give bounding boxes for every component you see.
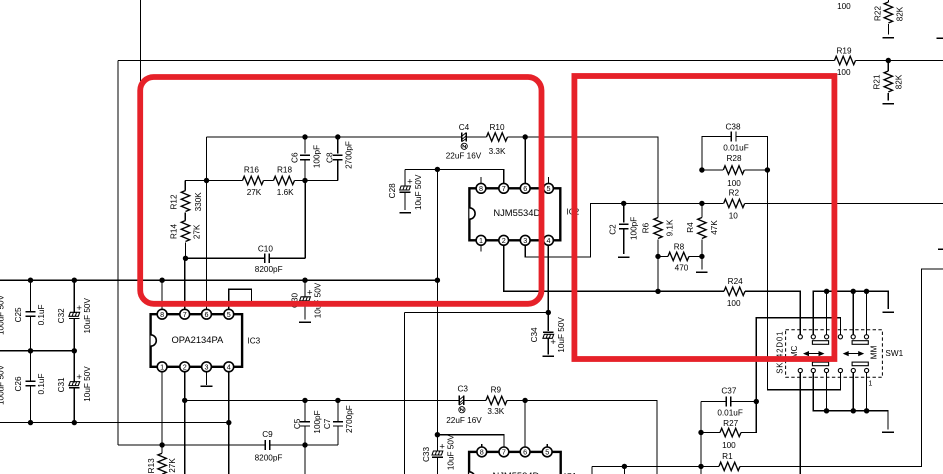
pin 4 IC2: [544, 235, 554, 245]
wire sw bottom contact1 column: [799, 373, 801, 474]
wire main bus y60 left of R19: [118, 60, 835, 62]
svg-text:1: 1: [868, 379, 872, 388]
svg-text:8: 8: [160, 310, 164, 319]
capacitor C8: [337, 137, 339, 181]
resistor R2: [724, 199, 745, 207]
svg-text:8: 8: [479, 184, 483, 193]
node R6-R8 junction: [655, 254, 660, 259]
node C2 top: [621, 201, 626, 206]
wire x305 column to C10 corner: [304, 181, 306, 259]
svg-text:100: 100: [837, 68, 851, 77]
ground for C30: [299, 321, 311, 323]
wire x437 column: [436, 169, 438, 434]
svg-text:R16: R16: [244, 165, 259, 174]
svg-text:100: 100: [837, 2, 851, 11]
wire y400 row c: [507, 400, 657, 474]
pin 2 IC3: [180, 362, 190, 372]
svg-text:0.01uF: 0.01uF: [723, 144, 749, 153]
svg-text:100: 100: [727, 179, 741, 188]
svg-text:82K: 82K: [894, 74, 903, 89]
svg-text:MM: MM: [870, 345, 879, 359]
wire y400 row b: [464, 399, 486, 401]
svg-text:R14: R14: [169, 224, 178, 239]
svg-text:10uF 50V: 10uF 50V: [557, 317, 566, 353]
resistor R27: [701, 402, 756, 433]
svg-text:100pF: 100pF: [313, 145, 322, 168]
wire switch bottom ground net: [813, 373, 888, 430]
wire C9 row a: [118, 444, 265, 446]
svg-text:C31: C31: [57, 377, 66, 392]
pin 5 IC1: [546, 444, 548, 447]
svg-text:NJM5534D: NJM5534D: [492, 470, 539, 474]
node sw top c5: [851, 289, 856, 294]
switch SW1 dashed outline: [786, 330, 883, 378]
ground switch top net: [882, 311, 894, 313]
node R27 left: [698, 430, 703, 435]
wire C10 row: [186, 257, 306, 259]
wire IC2 pin4 column to C34: [547, 245, 549, 312]
svg-text:R2: R2: [729, 188, 740, 197]
svg-text:22uF 16V: 22uF 16V: [446, 416, 482, 425]
svg-text:8200pF: 8200pF: [255, 265, 283, 274]
wire y312 row: [404, 312, 548, 314]
resistor R13: [158, 453, 166, 474]
wire IC3 pin2 column: [184, 372, 186, 474]
svg-text:+: +: [407, 177, 413, 188]
node y422 x74: [72, 420, 77, 425]
wire switch top ground net: [813, 291, 888, 334]
node pin2 y400: [182, 398, 187, 403]
svg-text:1.6K: 1.6K: [277, 188, 294, 197]
svg-text:3.3K: 3.3K: [487, 407, 504, 416]
svg-text:R13: R13: [147, 458, 156, 473]
node bus x437: [435, 278, 440, 283]
wire input riser top-left: [140, 0, 142, 81]
wire x592 stub: [591, 466, 593, 474]
red highlight box 2: [574, 76, 834, 359]
svg-text:100uF 50V: 100uF 50V: [0, 364, 6, 405]
capacitor C31: [73, 351, 75, 423]
svg-text:IC3: IC3: [247, 337, 260, 346]
capacitor C2: [623, 203, 625, 254]
wire y137 net from IC3 pin6: [207, 136, 462, 138]
svg-text:100: 100: [727, 299, 741, 308]
node R4 top: [699, 201, 704, 206]
svg-text:C9: C9: [262, 430, 273, 439]
wire y180 R16 R18 row: [185, 180, 338, 182]
resistor R24: [724, 287, 745, 295]
svg-text:27K: 27K: [247, 188, 262, 197]
node R19-R21 junction: [886, 58, 891, 63]
svg-text:2700pF: 2700pF: [345, 405, 354, 433]
node R18 output junction: [302, 178, 307, 183]
wire left riser x118 down to C9 row: [117, 61, 119, 446]
ground for C34: [543, 355, 555, 357]
node R28 right: [765, 167, 770, 172]
svg-text:+: +: [76, 303, 82, 314]
wire sw bottom contact5 riser: [852, 373, 854, 411]
svg-text:2: 2: [183, 362, 187, 371]
node C37 right: [754, 399, 759, 404]
node sw top c3: [824, 289, 829, 294]
pin 2 IC2: [499, 235, 509, 245]
pin 7 IC2: [499, 183, 509, 193]
svg-text:R27: R27: [723, 419, 738, 428]
capacitor C6: [304, 137, 306, 181]
node y422 x30: [28, 420, 33, 425]
node R14-C10 junction: [183, 256, 188, 261]
wire x404 column: [403, 313, 405, 474]
svg-text:10uF 50V: 10uF 50V: [83, 298, 92, 334]
wire C38 loop: [702, 137, 768, 171]
svg-text:7: 7: [502, 184, 506, 193]
svg-text:0.01uF: 0.01uF: [717, 408, 743, 417]
svg-text:8200pF: 8200pF: [255, 454, 283, 463]
svg-text:R6: R6: [641, 222, 650, 233]
svg-text:9.1K: 9.1K: [666, 219, 675, 236]
wire MC select net from C38 node: [767, 170, 840, 390]
node sw bottom c5: [851, 408, 856, 413]
svg-text:C25: C25: [14, 307, 23, 322]
resistor R6: [654, 218, 662, 239]
svg-text:10uF 50V: 10uF 50V: [83, 366, 92, 402]
svg-text:R4: R4: [686, 222, 695, 233]
wire stub right edge y249: [938, 248, 943, 250]
svg-text:R22: R22: [874, 6, 883, 21]
node sw bottom c6: [864, 408, 869, 413]
node bus x30: [28, 278, 33, 283]
node C28 net junction x437: [435, 167, 440, 172]
svg-text:R10: R10: [489, 123, 504, 132]
capacitor C9: [265, 440, 270, 450]
svg-text:C26: C26: [14, 376, 23, 391]
wire IC3 pin5 staple: [229, 289, 252, 309]
wire C37 left column: [700, 402, 702, 474]
wire y400 row a: [185, 399, 460, 401]
SW1 bottom left slider bar: [812, 362, 828, 366]
wire IC1 pin6 link: [524, 400, 526, 447]
svg-text:100: 100: [722, 441, 736, 450]
pin 7 IC1: [499, 447, 509, 457]
svg-text:7: 7: [502, 448, 506, 457]
svg-text:3: 3: [205, 362, 209, 371]
node bus x305 C30 top: [302, 278, 307, 283]
svg-text:R21: R21: [872, 74, 881, 89]
capacitor C7: [337, 400, 339, 445]
node y137 R10 output: [523, 134, 528, 139]
svg-text:+: +: [439, 442, 445, 453]
wire bottom row y422: [0, 422, 229, 424]
wire C37 loop: [701, 401, 756, 403]
svg-text:C33: C33: [422, 447, 431, 462]
capacitor C37: [726, 397, 731, 407]
svg-text:3: 3: [523, 236, 527, 245]
node C33 top junction: [435, 432, 440, 437]
svg-text:C6: C6: [291, 152, 300, 163]
wire MM select net top: [756, 318, 840, 402]
node R6 bottom on R24 net: [655, 289, 660, 294]
svg-text:OPA2134PA: OPA2134PA: [172, 334, 225, 345]
node y137 C8 top: [335, 134, 340, 139]
svg-text:10: 10: [729, 212, 739, 221]
node R8-R4 junction: [699, 254, 704, 259]
svg-text:C3: C3: [457, 384, 468, 393]
SW1 bottom contacts: [798, 368, 802, 372]
capacitor C26: [30, 351, 32, 423]
svg-text:SW1: SW1: [885, 349, 903, 358]
wire bus y279: [0, 279, 437, 281]
resistor R8: [658, 255, 702, 257]
resistor R14: [181, 221, 189, 242]
svg-text:+: +: [76, 372, 82, 383]
SW1 top contacts: [798, 335, 802, 339]
svg-text:C34: C34: [530, 327, 539, 342]
wire IC2 pin3 to feedback bus y203: [525, 203, 723, 257]
svg-text:R18: R18: [277, 165, 292, 174]
svg-text:6: 6: [523, 448, 527, 457]
op-amp IC3 OPA2134PA body: [151, 314, 243, 367]
ground for R8 R4: [701, 256, 703, 269]
wire mid row y350: [0, 350, 74, 352]
capacitor C38: [731, 132, 736, 142]
svg-text:47K: 47K: [710, 220, 719, 235]
svg-text:C7: C7: [323, 418, 332, 429]
node R1 left: [698, 464, 703, 469]
ground for R22: [883, 37, 895, 39]
capacitor C32: [73, 280, 75, 351]
svg-text:10uF 50V: 10uF 50V: [446, 434, 455, 470]
pin 3 IC3: [202, 362, 212, 372]
capacitor C33: [436, 435, 438, 474]
wire IC3 pin8 riser: [161, 280, 163, 309]
svg-text:10uF 50V: 10uF 50V: [313, 282, 322, 318]
svg-text:R12: R12: [170, 194, 179, 209]
wire output row y466: [592, 269, 943, 466]
node C5-C9 junction: [302, 442, 307, 447]
svg-text:R19: R19: [836, 47, 851, 56]
svg-text:5: 5: [545, 448, 549, 457]
wire IC2 pin2 output to R24 net: [504, 245, 658, 291]
wire stub right edge y38: [937, 37, 943, 39]
svg-text:R1: R1: [722, 452, 733, 461]
node mid x74: [72, 348, 77, 353]
pin 4 IC3: [224, 362, 234, 372]
wire IC1 pin7 link: [437, 435, 504, 447]
SW1 bottom right slider bar: [852, 362, 868, 366]
resistor R19: [835, 56, 856, 64]
wire y203 right of R2 to edge: [745, 202, 943, 204]
node pin1 R13 junction: [159, 442, 164, 447]
capacitor C3: [459, 396, 464, 405]
node bus x74: [72, 278, 77, 283]
svg-text:0.1uF: 0.1uF: [37, 304, 46, 325]
node C34 top junction: [546, 310, 551, 315]
pin 5 IC2: [548, 177, 550, 184]
svg-text:100uF 50V: 100uF 50V: [0, 294, 6, 335]
svg-text:+: +: [307, 287, 313, 298]
svg-text:NJM5534D: NJM5534D: [493, 207, 540, 218]
pin 5 IC3: [224, 309, 234, 319]
svg-text:R9: R9: [491, 386, 502, 395]
svg-text:6: 6: [205, 310, 209, 319]
svg-text:SK-42D01: SK-42D01: [775, 331, 784, 374]
svg-text:1: 1: [479, 236, 483, 245]
svg-text:5: 5: [547, 184, 551, 193]
svg-text:C5: C5: [293, 418, 302, 429]
pin 8 IC2: [480, 177, 482, 184]
node y400 C5 top: [302, 398, 307, 403]
resistor R28: [702, 169, 768, 171]
wire y137 net C4 to R10: [466, 136, 486, 138]
ground switch bottom net: [882, 431, 894, 433]
svg-text:82K: 82K: [896, 6, 905, 21]
wire sw top contact6 riser: [866, 291, 868, 334]
svg-text:0.1uF: 0.1uF: [37, 374, 46, 395]
node y466 x624: [622, 464, 627, 469]
svg-text:4: 4: [227, 362, 231, 371]
wire IC3 pin6 riser: [206, 137, 208, 309]
node y422 IC3 pin4: [226, 420, 231, 425]
svg-text:C4: C4: [459, 123, 470, 132]
svg-text:5: 5: [227, 310, 231, 319]
resistor R10: [487, 133, 508, 141]
wire IC3 pin7 riser: [184, 258, 186, 309]
svg-text:27K: 27K: [192, 224, 201, 239]
node y400 IC1 pin6: [522, 398, 527, 403]
svg-text:+: +: [550, 337, 556, 348]
svg-text:C37: C37: [721, 386, 736, 395]
op-amp IC2 NJM5534D body: [469, 188, 560, 240]
svg-text:C2: C2: [609, 224, 618, 235]
resistor R22: [887, 0, 889, 35]
node sw bottom c3: [824, 408, 829, 413]
wire sw top contact3 riser: [826, 291, 828, 334]
pin 3 IC2: [520, 235, 530, 245]
svg-text:C8: C8: [325, 152, 334, 163]
wire main bus y60 right of R19: [856, 60, 943, 62]
wire sw bottom contact3 riser: [826, 373, 828, 411]
svg-text:R8: R8: [674, 243, 685, 252]
pin 6 IC2: [524, 137, 526, 183]
wire C28 top to IC2 pin7: [405, 169, 504, 183]
svg-text:C28: C28: [388, 183, 397, 198]
ground for R21: [883, 103, 895, 105]
svg-text:C32: C32: [57, 308, 66, 323]
pin 7 IC3: [180, 309, 190, 319]
op-amp IC1 NJM5534D body: [469, 452, 561, 474]
resistor R12: [184, 181, 186, 221]
capacitor C28: [404, 169, 406, 209]
wire IC3 pin1 column: [161, 372, 163, 454]
capacitor C4: [462, 132, 467, 141]
capacitor C34: [547, 313, 549, 355]
wire y137 net R10 to R6 top riser: [508, 137, 659, 218]
svg-text:100pF: 100pF: [313, 410, 322, 433]
capacitor C30: [304, 280, 306, 319]
svg-text:470: 470: [675, 263, 689, 272]
capacitor C10: [265, 253, 270, 263]
svg-text:100pF: 100pF: [630, 217, 639, 240]
red highlight box 1: [140, 77, 541, 304]
pin 8 IC1: [481, 444, 483, 447]
wire R24 row: [658, 291, 800, 334]
wire sw top contact5 riser: [852, 291, 854, 334]
resistor R9: [486, 396, 507, 404]
SW1 top left slider bar: [812, 341, 828, 345]
wire sw bottom contact6 riser: [866, 373, 868, 411]
svg-text:C38: C38: [725, 122, 740, 131]
pin 6 IC1: [520, 447, 530, 457]
svg-text:4: 4: [547, 236, 551, 245]
wire C9 row b: [270, 444, 338, 446]
pin 1 IC3: [157, 362, 167, 372]
svg-text:22uF 16V: 22uF 16V: [446, 151, 482, 160]
wire x624 stub: [623, 466, 625, 474]
node y400 C7 top: [335, 398, 340, 403]
resistor R18: [274, 176, 295, 184]
ground for C28: [399, 212, 411, 214]
node y137 C6 top: [302, 134, 307, 139]
node mid x30: [28, 348, 33, 353]
pin 8 IC3: [157, 309, 167, 319]
wire IC3 pin4 column: [228, 372, 230, 474]
node sw top c6: [864, 289, 869, 294]
ground IC3 pin3: [201, 385, 213, 387]
svg-text:R28: R28: [726, 154, 741, 163]
svg-text:7: 7: [183, 310, 187, 319]
svg-text:8: 8: [480, 448, 484, 457]
svg-text:3.3K: 3.3K: [489, 147, 506, 156]
pin 6 IC3: [202, 309, 212, 319]
node R18-C6 junction: [204, 178, 209, 183]
resistor R4: [701, 203, 703, 256]
SW1 right arrow: [846, 353, 861, 355]
svg-text:330K: 330K: [194, 192, 203, 212]
svg-text:C10: C10: [258, 245, 273, 254]
svg-text:6: 6: [523, 184, 527, 193]
node R28 left: [699, 167, 704, 172]
svg-text:10uF 50V: 10uF 50V: [414, 174, 423, 210]
svg-text:1: 1: [160, 362, 164, 371]
resistor R16: [243, 176, 264, 184]
SW1 left arrow: [807, 353, 822, 355]
svg-text:2: 2: [502, 236, 506, 245]
resistor R21: [887, 61, 889, 101]
capacitor C5: [304, 400, 306, 474]
wire IC3 pin3 ground stub: [206, 372, 208, 385]
capacitor C25: [30, 280, 32, 351]
node bus x162: [159, 278, 164, 283]
svg-text:R24: R24: [728, 277, 743, 286]
ground for C2: [618, 256, 630, 258]
pin 1 IC2: [480, 245, 482, 251]
svg-text:2700pF: 2700pF: [344, 141, 353, 169]
svg-text:27K: 27K: [168, 458, 177, 473]
SW1 top right slider bar: [852, 341, 868, 345]
resistor R1: [719, 462, 740, 470]
